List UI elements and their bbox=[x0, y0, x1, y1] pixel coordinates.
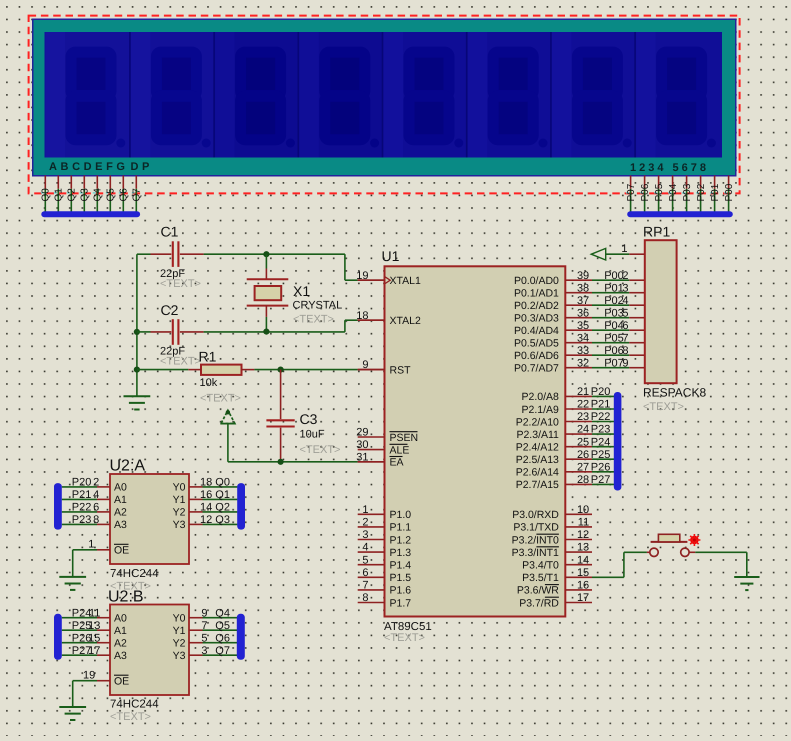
selection box (red dashed) around display bbox=[29, 16, 740, 194]
net label P21 bbox=[591, 399, 611, 411]
svg-text:A3: A3 bbox=[114, 650, 127, 662]
svg-text:Y2: Y2 bbox=[173, 507, 186, 519]
net label P01 bbox=[604, 282, 624, 294]
svg-text:U2:B: U2:B bbox=[108, 589, 144, 606]
wire: P2.1 to bus bbox=[592, 408, 614, 410]
net label P23 bbox=[591, 424, 611, 436]
svg-text:14: 14 bbox=[200, 502, 212, 514]
svg-text:19: 19 bbox=[356, 270, 368, 282]
svg-text:15: 15 bbox=[88, 632, 100, 644]
svg-text:P25: P25 bbox=[591, 449, 611, 461]
wire: display digit pin 8 to bus bbox=[724, 176, 729, 212]
wire: display digit pin 4 to bus bbox=[668, 176, 673, 212]
wire: display digit pin 1 to bus bbox=[626, 176, 631, 212]
net label Q2 (rotated) bbox=[67, 188, 78, 202]
ground (U2:B) bbox=[59, 707, 86, 720]
svg-text:<TEXT>: <TEXT> bbox=[384, 632, 425, 644]
svg-text:P0.4/AD4: P0.4/AD4 bbox=[514, 325, 559, 337]
svg-text:P2.4/A12: P2.4/A12 bbox=[516, 442, 559, 454]
svg-text:A0: A0 bbox=[114, 613, 127, 625]
wire: P0.3 to RP1 pin 5 bbox=[592, 317, 645, 319]
net label Q5 at U2:B bbox=[201, 620, 230, 632]
junction at C1/X1 top bbox=[263, 251, 269, 257]
net label Q3 at U2:A bbox=[200, 514, 230, 526]
svg-text:DP: DP bbox=[131, 161, 153, 173]
wire: display segment pin D to bus bbox=[80, 176, 85, 212]
net label P23 at U2:A bbox=[72, 514, 100, 526]
net label P02 (rotated) bbox=[696, 183, 707, 201]
U1 pin 26 P2.5/A13 bbox=[516, 449, 592, 466]
svg-text:P22: P22 bbox=[591, 411, 611, 423]
wire: bus to U2:A A1 (pin 4) bbox=[62, 498, 110, 500]
net label P22 at U2:A bbox=[72, 502, 100, 514]
svg-text:P22: P22 bbox=[72, 502, 92, 514]
svg-text:P27: P27 bbox=[591, 474, 611, 486]
svg-text:1: 1 bbox=[88, 539, 94, 551]
svg-text:CRYSTAL: CRYSTAL bbox=[293, 300, 343, 312]
wire: U2:B Y0 (pin 9) to bus bbox=[189, 617, 237, 619]
svg-text:13: 13 bbox=[577, 542, 589, 554]
U1 pin 7 P1.6 bbox=[358, 580, 412, 597]
wire: bus to U2:B A0 (pin 11) bbox=[62, 617, 110, 619]
svg-text:34: 34 bbox=[577, 332, 589, 344]
svg-text:Q1: Q1 bbox=[215, 489, 230, 501]
svg-text:Q5: Q5 bbox=[106, 188, 117, 202]
wire: P2.2 to bus bbox=[592, 421, 614, 423]
wire: C1 to XTAL1 (pin 19) bbox=[204, 254, 385, 280]
svg-text:P1.3: P1.3 bbox=[390, 547, 412, 559]
U1 pin 1 P1.0 bbox=[358, 504, 412, 521]
svg-text:10: 10 bbox=[577, 504, 589, 516]
svg-text:P07: P07 bbox=[626, 183, 637, 201]
U1 pin 9 RST bbox=[358, 359, 411, 376]
button actuator red marker bbox=[688, 534, 700, 546]
svg-text:Y0: Y0 bbox=[173, 482, 186, 494]
wire: display segment pin F to bus bbox=[106, 176, 111, 212]
wire: P2.0 to bus bbox=[592, 395, 614, 397]
net label P20 at U2:A bbox=[72, 477, 100, 489]
net label Q2 at U2:A bbox=[200, 502, 230, 514]
wire: U2:A Y1 (pin 16) to bus bbox=[189, 498, 237, 500]
svg-text:6: 6 bbox=[362, 567, 368, 579]
svg-text:26: 26 bbox=[577, 449, 589, 461]
svg-text:27: 27 bbox=[577, 461, 589, 473]
wire: button to ground bbox=[689, 552, 747, 577]
wire: RP1 pin 1 stub bbox=[621, 243, 644, 255]
svg-text:A1: A1 bbox=[114, 625, 127, 637]
net label P26 bbox=[591, 461, 611, 473]
svg-text:P05: P05 bbox=[654, 183, 665, 201]
U1 pin 12 P3.2/INT0 bbox=[512, 529, 592, 546]
resistor R1 bbox=[188, 349, 254, 405]
svg-text:P23: P23 bbox=[591, 424, 611, 436]
wire: P2.4 to bus bbox=[592, 446, 614, 448]
junction at R1/left rail bbox=[134, 367, 140, 373]
svg-text:PSEN: PSEN bbox=[390, 432, 419, 444]
U1 pin 29 PSEN bbox=[356, 427, 418, 444]
U1 pin 31 EA bbox=[356, 451, 403, 468]
svg-text:21: 21 bbox=[577, 386, 589, 398]
svg-text:11: 11 bbox=[89, 607, 100, 619]
U1 pin 22 P2.1/A9 bbox=[522, 399, 592, 416]
svg-text:A2: A2 bbox=[114, 638, 127, 650]
wire: bus to U2:B A3 (pin 17) bbox=[62, 654, 110, 656]
U1 pin 21 P2.0/A8 bbox=[522, 386, 592, 403]
wire: P0.6 to RP1 pin 8 bbox=[592, 354, 645, 356]
svg-text:P3.2/INT0: P3.2/INT0 bbox=[512, 534, 559, 546]
svg-text:Q3: Q3 bbox=[215, 514, 230, 526]
svg-text:2: 2 bbox=[622, 270, 628, 282]
wire: left vertical rail from C1 to ground bbox=[137, 254, 151, 396]
wire: P2.5 to bus bbox=[592, 458, 614, 460]
svg-text:P0.3/AD3: P0.3/AD3 bbox=[514, 313, 559, 325]
svg-text:13: 13 bbox=[88, 620, 100, 632]
svg-text:12: 12 bbox=[200, 514, 212, 526]
svg-text:35: 35 bbox=[577, 320, 589, 332]
U1 pin 10 P3.0/RXD bbox=[512, 504, 592, 521]
svg-text:P04: P04 bbox=[668, 183, 679, 201]
RP1 pin number 2 bbox=[622, 270, 628, 282]
wire: display digit pin 3 to bus bbox=[654, 176, 659, 212]
svg-text:P02: P02 bbox=[696, 183, 707, 201]
svg-text:A0: A0 bbox=[114, 482, 127, 494]
wire: P3.5/T1 to push button bbox=[592, 552, 650, 577]
wire: P0.0 to RP1 pin 2 bbox=[592, 279, 645, 281]
svg-text:P3.7/RD: P3.7/RD bbox=[519, 597, 559, 609]
svg-text:30: 30 bbox=[356, 439, 368, 451]
capacitor C3 bbox=[266, 370, 340, 462]
U1 pin 2 P1.1 bbox=[358, 517, 412, 534]
net label Q4 at U2:B bbox=[201, 607, 230, 619]
wire: display segment pin G to bus bbox=[119, 176, 124, 212]
junction at C2/left rail bbox=[134, 329, 140, 335]
svg-text:P01: P01 bbox=[604, 282, 624, 294]
U1 pin 16 P3.6/WR bbox=[517, 580, 592, 597]
net label P27 bbox=[591, 474, 611, 486]
svg-text:P23: P23 bbox=[72, 514, 92, 526]
wire: U2:A Y0 (pin 18) to bus bbox=[189, 486, 237, 488]
net label Q0 (rotated) bbox=[41, 188, 52, 202]
wire: P0.7 to RP1 pin 9 bbox=[592, 367, 645, 369]
wire: P0.2 to RP1 pin 4 bbox=[592, 304, 645, 306]
svg-text:Y1: Y1 bbox=[173, 494, 186, 506]
svg-text:6: 6 bbox=[93, 502, 99, 514]
wire: R1 to RST (pin 9) bbox=[254, 369, 384, 371]
svg-text:12: 12 bbox=[577, 529, 589, 541]
RP1 pin number 9 bbox=[622, 357, 628, 369]
svg-text:74HC244: 74HC244 bbox=[110, 568, 159, 580]
wire: bus to U2:A A2 (pin 6) bbox=[62, 511, 110, 513]
net label P26 at U2:B bbox=[72, 632, 101, 644]
buffer U2:A 74HC244 body bbox=[110, 458, 190, 593]
svg-text:P2.5/A13: P2.5/A13 bbox=[516, 454, 559, 466]
svg-text:A1: A1 bbox=[114, 494, 127, 506]
RP1 pin number 4 bbox=[622, 295, 628, 307]
RP1 pin number 8 bbox=[622, 345, 628, 357]
svg-text:P26: P26 bbox=[591, 461, 611, 473]
ground (U2:A) bbox=[59, 577, 86, 590]
U1 pin 38 P0.1/AD1 bbox=[514, 282, 592, 299]
svg-text:Q5: Q5 bbox=[215, 620, 230, 632]
P2 bus bar bbox=[614, 392, 622, 491]
svg-text:3: 3 bbox=[201, 645, 207, 657]
svg-text:37: 37 bbox=[577, 295, 589, 307]
wire: C3/power to EA (pin 31) bbox=[228, 461, 385, 463]
svg-text:Y0: Y0 bbox=[173, 613, 186, 625]
net label P25 bbox=[591, 449, 611, 461]
U1 pin 13 P3.3/INT1 bbox=[512, 542, 592, 559]
net label P24 at U2:B bbox=[72, 607, 101, 619]
svg-text:24: 24 bbox=[577, 424, 589, 436]
svg-text:P1.1: P1.1 bbox=[390, 522, 412, 534]
svg-text:32: 32 bbox=[577, 357, 589, 369]
RP1 pin number 3 bbox=[622, 282, 628, 294]
wire: U2:B OE (pin 19) to ground bbox=[73, 669, 110, 707]
junction at C3 bottom bbox=[278, 459, 284, 465]
wire: bus to U2:B A1 (pin 13) bbox=[62, 629, 110, 631]
net label Q7 (rotated) bbox=[132, 188, 143, 202]
svg-text:11: 11 bbox=[578, 517, 589, 529]
svg-text:Q4: Q4 bbox=[93, 188, 104, 202]
svg-text:7: 7 bbox=[201, 620, 207, 632]
svg-text:P00: P00 bbox=[724, 183, 735, 201]
RP1 pin number 5 bbox=[622, 307, 628, 319]
net label P25 at U2:B bbox=[72, 620, 101, 632]
net label P06 bbox=[604, 345, 624, 357]
svg-text:P3.3/INT1: P3.3/INT1 bbox=[512, 547, 559, 559]
svg-text:15: 15 bbox=[577, 567, 589, 579]
svg-text:Y1: Y1 bbox=[173, 625, 186, 637]
U2:A input bus bar bbox=[54, 483, 62, 529]
svg-text:1234: 1234 bbox=[630, 162, 666, 174]
svg-text:C1: C1 bbox=[161, 224, 179, 240]
svg-text:7: 7 bbox=[622, 332, 628, 344]
svg-text:8: 8 bbox=[362, 592, 368, 604]
U2:B input bus bar bbox=[54, 614, 62, 660]
svg-text:22: 22 bbox=[577, 399, 589, 411]
svg-text:Q7: Q7 bbox=[132, 188, 143, 202]
svg-text:ALE: ALE bbox=[390, 444, 410, 456]
svg-text:P2.6/A14: P2.6/A14 bbox=[516, 467, 559, 479]
svg-text:<TEXT>: <TEXT> bbox=[160, 278, 201, 290]
svg-text:A3: A3 bbox=[114, 519, 127, 531]
svg-text:P1.0: P1.0 bbox=[390, 509, 412, 521]
U1 pin 4 P1.3 bbox=[358, 542, 412, 559]
svg-text:P2.2/A10: P2.2/A10 bbox=[516, 416, 559, 428]
wire: P2.6 to bus bbox=[592, 471, 614, 473]
U1 pin 8 P1.7 bbox=[358, 592, 412, 609]
wire: U2:B Y3 (pin 3) to bus bbox=[189, 654, 237, 656]
svg-text:<TEXT>: <TEXT> bbox=[300, 444, 341, 456]
svg-text:P01: P01 bbox=[710, 183, 721, 201]
svg-text:P06: P06 bbox=[640, 183, 651, 201]
7-segment display DS1 (8-digit blue multiplexed display) bbox=[33, 19, 736, 175]
U1 pin 25 P2.4/A12 bbox=[516, 436, 592, 453]
svg-text:U2:A: U2:A bbox=[110, 458, 146, 475]
net label P05 (rotated) bbox=[654, 183, 665, 201]
net label P02 bbox=[604, 295, 624, 307]
svg-text:OE: OE bbox=[114, 676, 129, 688]
svg-text:C2: C2 bbox=[161, 302, 179, 318]
net label P24 bbox=[591, 436, 611, 448]
wire: P0.1 to RP1 pin 3 bbox=[592, 292, 645, 294]
svg-text:Q7: Q7 bbox=[215, 645, 230, 657]
capacitor C1 bbox=[151, 224, 204, 291]
wire: U2:B Y1 (pin 7) to bus bbox=[189, 629, 237, 631]
wire: U2:A OE (pin 1) to ground bbox=[73, 539, 110, 577]
svg-text:U1: U1 bbox=[382, 248, 400, 264]
U1 pin 32 P0.7/AD7 bbox=[514, 357, 592, 374]
svg-text:Q6: Q6 bbox=[119, 188, 130, 202]
capacitor C2 bbox=[151, 302, 204, 368]
net label Q6 at U2:B bbox=[201, 632, 230, 644]
svg-text:36: 36 bbox=[577, 307, 589, 319]
svg-text:P21: P21 bbox=[591, 399, 611, 411]
svg-text:4: 4 bbox=[93, 489, 99, 501]
net label P00 bbox=[604, 270, 624, 282]
wire: bus to U2:A A0 (pin 2) bbox=[62, 486, 110, 488]
net label P03 (rotated) bbox=[682, 183, 693, 201]
wire: U2:A Y2 (pin 14) to bus bbox=[189, 511, 237, 513]
svg-text:P20: P20 bbox=[591, 386, 611, 398]
svg-text:19: 19 bbox=[83, 669, 95, 681]
svg-text:Q2: Q2 bbox=[67, 188, 78, 202]
svg-text:31: 31 bbox=[356, 451, 368, 463]
svg-text:5678: 5678 bbox=[673, 162, 709, 174]
net label Q1 (rotated) bbox=[54, 188, 65, 202]
svg-text:P2.3/A11: P2.3/A11 bbox=[516, 429, 559, 441]
svg-text:<TEXT>: <TEXT> bbox=[200, 393, 241, 405]
svg-text:ABCDEFG: ABCDEFG bbox=[49, 161, 129, 173]
svg-text:P0.6/AD6: P0.6/AD6 bbox=[514, 350, 559, 362]
U1 pin 39 P0.0/AD0 bbox=[514, 270, 592, 287]
svg-text:Q1: Q1 bbox=[54, 188, 65, 202]
U1 pin 14 P3.4/T0 bbox=[522, 554, 592, 571]
svg-text:P2.0/A8: P2.0/A8 bbox=[522, 391, 560, 403]
svg-text:4: 4 bbox=[622, 295, 628, 307]
U1 pin 3 P1.2 bbox=[358, 529, 412, 546]
svg-text:P3.1/TXD: P3.1/TXD bbox=[513, 522, 559, 534]
net label Q5 (rotated) bbox=[106, 188, 117, 202]
wire: C2 to XTAL2 (pin 18) bbox=[137, 320, 385, 332]
svg-text:P03: P03 bbox=[604, 307, 624, 319]
svg-text:7: 7 bbox=[362, 580, 368, 592]
push button SW bbox=[650, 534, 689, 556]
svg-text:P1.2: P1.2 bbox=[390, 534, 412, 546]
svg-text:9: 9 bbox=[362, 359, 368, 371]
wire: display segment pin DP to bus bbox=[132, 176, 137, 212]
net label P05 bbox=[604, 332, 624, 344]
svg-text:10k: 10k bbox=[200, 377, 218, 389]
svg-text:P06: P06 bbox=[604, 345, 624, 357]
svg-text:38: 38 bbox=[577, 282, 589, 294]
svg-text:P21: P21 bbox=[72, 489, 92, 501]
svg-text:9: 9 bbox=[622, 357, 628, 369]
svg-text:P24: P24 bbox=[591, 436, 611, 448]
resistor pack RP1 RESPACK-8 body bbox=[643, 224, 706, 414]
net label P06 (rotated) bbox=[640, 183, 651, 201]
svg-text:P20: P20 bbox=[72, 477, 92, 489]
svg-text:17: 17 bbox=[88, 645, 100, 657]
U2:B output bus bar bbox=[237, 614, 245, 660]
U1 pin 23 P2.2/A10 bbox=[516, 411, 592, 428]
svg-text:5: 5 bbox=[201, 632, 207, 644]
svg-text:Q4: Q4 bbox=[215, 607, 230, 619]
svg-text:23: 23 bbox=[577, 411, 589, 423]
power terminal (up arrow) bbox=[220, 410, 235, 462]
svg-text:<TEXT>: <TEXT> bbox=[643, 401, 684, 413]
wire: display segment pin A to bus bbox=[41, 176, 46, 212]
net label P27 at U2:B bbox=[72, 645, 101, 657]
svg-text:<TEXT>: <TEXT> bbox=[160, 356, 201, 368]
U1 pin 37 P0.2/AD2 bbox=[514, 295, 592, 312]
svg-text:8: 8 bbox=[622, 345, 628, 357]
svg-text:3: 3 bbox=[622, 282, 628, 294]
wire: left rail to R1 bbox=[137, 369, 188, 371]
left segment bus bar bbox=[41, 211, 140, 217]
svg-text:P3.6/WR: P3.6/WR bbox=[517, 585, 559, 597]
net label P04 bbox=[604, 320, 624, 332]
net label P00 (rotated) bbox=[724, 183, 735, 201]
svg-text:OE: OE bbox=[114, 545, 129, 557]
svg-text:XTAL2: XTAL2 bbox=[390, 315, 421, 327]
svg-text:14: 14 bbox=[577, 554, 589, 566]
svg-text:P1.6: P1.6 bbox=[390, 585, 412, 597]
net label Q7 at U2:B bbox=[201, 645, 230, 657]
svg-text:4: 4 bbox=[362, 542, 368, 554]
svg-text:A2: A2 bbox=[114, 507, 127, 519]
svg-text:P0.2/AD2: P0.2/AD2 bbox=[514, 300, 559, 312]
net label P07 bbox=[604, 357, 624, 369]
buffer U2:B 74HC244 body bbox=[108, 589, 189, 724]
U1 pin 24 P2.3/A11 bbox=[516, 424, 592, 441]
svg-text:Y3: Y3 bbox=[173, 519, 186, 531]
crystal X1 bbox=[247, 254, 343, 331]
ground (button) bbox=[734, 577, 759, 590]
svg-text:<TEXT>: <TEXT> bbox=[110, 711, 151, 723]
svg-text:74HC244: 74HC244 bbox=[110, 699, 159, 711]
svg-text:RP1: RP1 bbox=[643, 224, 670, 240]
wire: display segment pin B to bus bbox=[54, 176, 59, 212]
svg-text:Q6: Q6 bbox=[215, 632, 230, 644]
svg-text:P0.1/AD1: P0.1/AD1 bbox=[514, 288, 559, 300]
svg-text:P0.0/AD0: P0.0/AD0 bbox=[514, 275, 559, 287]
svg-text:P00: P00 bbox=[604, 270, 624, 282]
U1 pin 18 XTAL2 bbox=[356, 310, 421, 327]
svg-text:RESPACK8: RESPACK8 bbox=[643, 386, 706, 400]
U1 pin 35 P0.4/AD4 bbox=[514, 320, 592, 337]
wire: P2.3 to bus bbox=[592, 433, 614, 435]
U1 pin 28 P2.7/A15 bbox=[516, 474, 592, 491]
svg-text:P1.4: P1.4 bbox=[390, 560, 412, 572]
right digit bus bar bbox=[627, 211, 733, 217]
U1 pin 36 P0.3/AD3 bbox=[514, 307, 592, 324]
net label P01 (rotated) bbox=[710, 183, 721, 201]
svg-text:2: 2 bbox=[362, 517, 368, 529]
U1 pin 15 P3.5/T1 bbox=[522, 567, 592, 584]
wire: display segment pin E to bus bbox=[93, 176, 98, 212]
U1 pin 5 P1.4 bbox=[358, 554, 412, 571]
net label P04 (rotated) bbox=[668, 183, 679, 201]
svg-text:X1: X1 bbox=[293, 283, 310, 299]
power terminal (left arrow) at RP1 pin 1 bbox=[591, 248, 629, 260]
svg-text:1: 1 bbox=[621, 243, 627, 255]
svg-text:P1.7: P1.7 bbox=[390, 597, 412, 609]
svg-text:25: 25 bbox=[577, 436, 589, 448]
svg-text:RST: RST bbox=[390, 364, 412, 376]
svg-text:Q0: Q0 bbox=[215, 477, 230, 489]
svg-text:<TEXT>: <TEXT> bbox=[293, 314, 334, 326]
